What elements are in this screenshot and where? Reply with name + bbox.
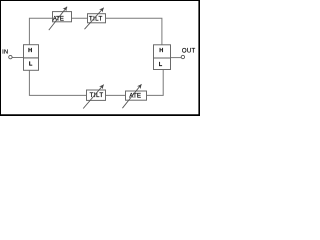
svg-text:H: H bbox=[159, 48, 163, 54]
tilt box bottom (TILT, variable) bbox=[83, 85, 105, 109]
wire right box to OUT terminal bbox=[171, 57, 182, 59]
wire bottom path: right box L down, bottom rail, up to left box L bbox=[29, 70, 163, 96]
svg-text:OUT: OUT bbox=[182, 49, 196, 55]
diplex filter left (H/L) bbox=[24, 45, 39, 71]
wire top path: left box H up, top rail, down to right box H bbox=[29, 18, 162, 45]
attenuator box top (ATE, variable) bbox=[49, 7, 72, 30]
wire IN terminal to left box bbox=[12, 57, 23, 59]
tilt box top (TILT, variable) bbox=[85, 8, 106, 30]
svg-text:L: L bbox=[159, 62, 163, 68]
svg-text:ATE: ATE bbox=[53, 15, 64, 22]
svg-text:H: H bbox=[28, 48, 32, 54]
IN terminal bbox=[2, 50, 12, 59]
OUT terminal bbox=[181, 49, 195, 59]
svg-text:IN: IN bbox=[2, 50, 8, 56]
attenuator box bottom (ATE, variable) bbox=[122, 84, 146, 108]
svg-text:ATE: ATE bbox=[129, 92, 141, 99]
diplex filter right (H/L) bbox=[154, 45, 171, 70]
svg-text:L: L bbox=[29, 62, 33, 68]
border frame bbox=[0, 0, 200, 116]
